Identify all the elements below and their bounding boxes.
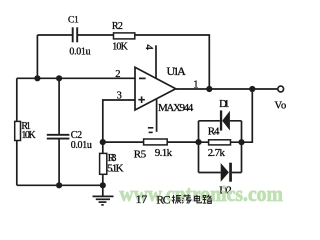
wire R3 bottom to rail — [102, 174, 104, 185]
capacitor C1 — [73, 27, 78, 42]
label pin 11 (rotated, appears as two bars) — [148, 128, 153, 133]
resistor R3 — [100, 153, 107, 174]
wire non-inverting input (pin 3) with corner — [103, 100, 135, 153]
resistor R5 — [144, 139, 168, 145]
wire diode network left vertical — [198, 121, 200, 173]
wire bottom rail — [17, 184, 103, 186]
junction node diode network right — [238, 139, 244, 145]
svg-text:R2: R2 — [112, 21, 123, 32]
diode D2 (pointing right, cathode bar right) — [221, 163, 232, 182]
junction node output / feedback — [206, 86, 212, 92]
svg-text:R4: R4 — [208, 125, 220, 137]
wire R4 branch — [199, 141, 242, 143]
wire top rail left segment — [37, 34, 72, 36]
resistor R4 — [209, 140, 231, 145]
junction node output / limiter drop — [249, 86, 255, 92]
svg-text:RC: RC — [156, 194, 170, 206]
wire C1 left leg down to inverting node — [36, 35, 38, 78]
svg-text:1: 1 — [193, 80, 198, 91]
svg-text:0.01u: 0.01u — [69, 47, 90, 58]
op-amp U1A triangle — [135, 67, 176, 110]
resistor R2 — [114, 33, 135, 39]
op-amp minus sign — [139, 77, 146, 79]
wire diode network right vertical — [241, 121, 243, 173]
svg-text:Vo: Vo — [275, 101, 287, 112]
wire top rail right segment with corner down to output node — [135, 35, 210, 89]
wire feedback drop from output node to R4 branch — [242, 89, 253, 142]
junction node R3 bottom / ground — [100, 182, 106, 188]
svg-text:4: 4 — [143, 44, 155, 50]
wire output from op-amp to terminal — [176, 88, 278, 90]
caption chinese char dang (荡) — [182, 195, 191, 204]
svg-text:2.7k: 2.7k — [208, 147, 226, 159]
svg-text:9.1k: 9.1k — [155, 147, 173, 159]
svg-text:2: 2 — [115, 69, 120, 80]
svg-text:MAX944: MAX944 — [158, 102, 194, 114]
wire C2 vertical leg — [58, 78, 60, 185]
junction node pin3 / R3 / R5 — [100, 139, 106, 145]
svg-text:0.01u: 0.01u — [71, 140, 92, 151]
junction node C2 / bottom rail — [56, 182, 62, 188]
svg-text:5.1K: 5.1K — [107, 162, 124, 174]
diode D1 (cathode bar left, pointing left) — [220, 110, 230, 130]
svg-text:17: 17 — [136, 194, 148, 206]
ground — [93, 185, 114, 205]
caption chinese char lu (路) — [203, 195, 212, 204]
caption chinese char dian (电) — [194, 195, 201, 203]
svg-text:C1: C1 — [68, 16, 79, 26]
wire left vertical through R1 — [16, 78, 18, 185]
svg-text:U1A: U1A — [167, 64, 187, 78]
resistor R1 — [15, 121, 21, 140]
junction node C2 leg / pin2 — [56, 75, 62, 81]
wire R5 node horizontal — [103, 141, 144, 143]
wire inverting input (pin 2) horizontal — [17, 77, 135, 79]
svg-text:10K: 10K — [21, 130, 36, 141]
op-amp plus sign — [138, 96, 145, 103]
wire D1 branch — [199, 120, 242, 122]
svg-text:R5: R5 — [134, 149, 147, 161]
junction node diode network left — [195, 139, 201, 145]
svg-text:3: 3 — [117, 90, 122, 101]
wire R5 right to diode network — [167, 141, 198, 143]
capacitor C2 — [47, 135, 70, 139]
caption chinese char zhen (振) — [172, 195, 181, 204]
svg-text:10K: 10K — [112, 42, 128, 53]
svg-text:D1: D1 — [219, 98, 229, 110]
junction node C1 leg / pin2 — [34, 75, 40, 81]
op-amp U1A pin11 stub — [156, 100, 158, 132]
wire top rail mid segment — [78, 34, 114, 36]
output terminal circle Vo — [278, 86, 284, 92]
wire D2 branch — [199, 172, 242, 174]
op-amp U1A pin4 stub — [155, 45, 157, 78]
